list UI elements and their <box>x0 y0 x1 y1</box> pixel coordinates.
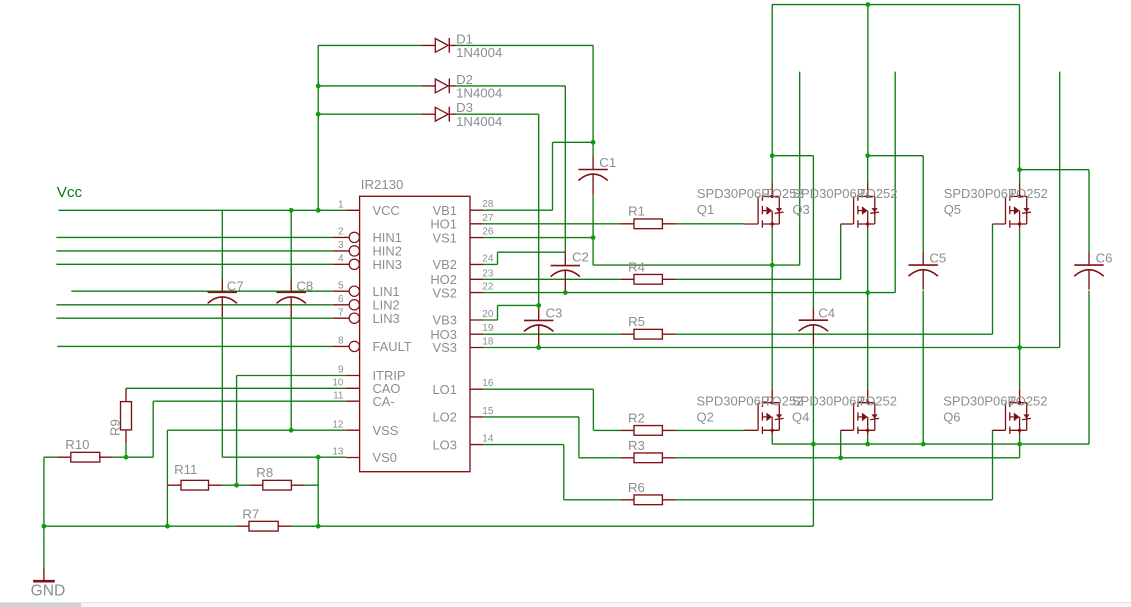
svg-text:C1: C1 <box>599 155 616 170</box>
svg-text:C3: C3 <box>546 305 563 320</box>
svg-text:R4: R4 <box>628 259 645 274</box>
svg-text:VS2: VS2 <box>433 285 457 300</box>
svg-text:TO252: TO252 <box>1008 393 1048 408</box>
svg-text:3: 3 <box>338 240 344 251</box>
svg-text:SPD30P06P: SPD30P06P <box>944 186 1017 201</box>
svg-text:R5: R5 <box>628 314 645 329</box>
svg-text:27: 27 <box>482 213 494 224</box>
svg-text:VB2: VB2 <box>433 257 457 272</box>
svg-text:SPD30P06P: SPD30P06P <box>943 393 1016 408</box>
svg-text:R6: R6 <box>628 480 645 495</box>
svg-text:C5: C5 <box>929 251 946 266</box>
svg-text:4: 4 <box>338 253 344 264</box>
svg-text:C7: C7 <box>227 278 244 293</box>
svg-text:16: 16 <box>482 378 494 389</box>
svg-text:18: 18 <box>482 337 494 348</box>
svg-text:HO1: HO1 <box>430 217 457 232</box>
svg-text:VSS: VSS <box>373 423 399 438</box>
svg-text:Vcc: Vcc <box>57 184 83 201</box>
svg-text:C6: C6 <box>1096 251 1113 266</box>
svg-text:HIN3: HIN3 <box>373 257 402 272</box>
svg-text:LO3: LO3 <box>433 437 457 452</box>
svg-text:10: 10 <box>332 377 344 388</box>
svg-text:GND: GND <box>31 583 66 600</box>
svg-text:R11: R11 <box>174 462 197 477</box>
svg-text:Q5: Q5 <box>944 202 961 217</box>
svg-text:6: 6 <box>338 294 344 305</box>
svg-text:1N4004: 1N4004 <box>456 86 502 101</box>
svg-text:C4: C4 <box>818 306 835 321</box>
svg-text:23: 23 <box>482 268 494 279</box>
svg-text:VS0: VS0 <box>373 450 397 465</box>
svg-text:R9: R9 <box>108 419 123 436</box>
svg-text:VB3: VB3 <box>433 313 457 328</box>
svg-text:22: 22 <box>482 282 494 293</box>
svg-text:14: 14 <box>482 434 494 445</box>
svg-text:C2: C2 <box>572 250 589 265</box>
svg-text:R3: R3 <box>628 438 645 453</box>
svg-text:9: 9 <box>338 365 344 376</box>
svg-text:Q4: Q4 <box>792 409 809 424</box>
svg-text:SPD30P06P: SPD30P06P <box>792 186 865 201</box>
svg-text:LO2: LO2 <box>433 410 457 425</box>
svg-text:2: 2 <box>338 227 344 238</box>
svg-text:24: 24 <box>482 253 494 264</box>
svg-text:R2: R2 <box>628 411 645 426</box>
svg-text:13: 13 <box>332 447 344 458</box>
svg-text:26: 26 <box>482 227 494 238</box>
svg-text:20: 20 <box>482 309 494 320</box>
svg-text:R1: R1 <box>628 203 645 218</box>
svg-text:8: 8 <box>338 336 344 347</box>
svg-text:1N4004: 1N4004 <box>456 114 502 129</box>
svg-text:R7: R7 <box>242 507 259 522</box>
svg-text:Q2: Q2 <box>697 409 714 424</box>
svg-text:TO252: TO252 <box>858 393 898 408</box>
svg-text:Q3: Q3 <box>792 202 809 217</box>
svg-text:19: 19 <box>482 323 494 334</box>
svg-text:15: 15 <box>482 406 494 417</box>
svg-text:1N4004: 1N4004 <box>456 45 502 60</box>
svg-text:R10: R10 <box>65 437 89 452</box>
svg-text:11: 11 <box>333 390 344 401</box>
svg-text:IR2130: IR2130 <box>361 177 404 192</box>
svg-text:5: 5 <box>338 280 344 291</box>
svg-text:CA-: CA- <box>373 394 395 409</box>
svg-text:TO252: TO252 <box>858 186 898 201</box>
svg-text:SPD30P06P: SPD30P06P <box>697 186 770 201</box>
svg-text:LO1: LO1 <box>433 382 457 397</box>
svg-text:SPD30P06P: SPD30P06P <box>697 393 770 408</box>
svg-text:FAULT: FAULT <box>373 339 412 354</box>
svg-text:12: 12 <box>332 419 344 430</box>
svg-text:R8: R8 <box>256 465 273 480</box>
svg-text:7: 7 <box>338 307 344 318</box>
svg-text:Q1: Q1 <box>697 202 714 217</box>
svg-text:28: 28 <box>482 199 494 210</box>
svg-text:Q6: Q6 <box>943 409 960 424</box>
svg-text:1: 1 <box>338 199 344 210</box>
svg-text:VS1: VS1 <box>433 230 457 245</box>
svg-text:C8: C8 <box>296 278 313 293</box>
svg-text:VCC: VCC <box>373 203 400 218</box>
svg-text:SPD30P06P: SPD30P06P <box>792 393 865 408</box>
svg-text:VS3: VS3 <box>433 340 457 355</box>
svg-text:TO252: TO252 <box>1008 186 1048 201</box>
svg-text:LIN3: LIN3 <box>373 311 400 326</box>
